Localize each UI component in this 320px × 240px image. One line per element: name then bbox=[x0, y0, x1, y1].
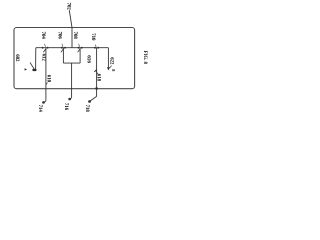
wire right drop bbox=[107, 48, 109, 68]
svg-text:610: 610 bbox=[46, 75, 51, 83]
leader to node C bbox=[95, 45, 96, 47]
wire fork right leg bbox=[79, 48, 81, 63]
wire pin C vertical bbox=[96, 48, 98, 97]
transistor Q5 arrow bbox=[94, 70, 96, 72]
pin 702 lead wire bbox=[69, 10, 72, 48]
pin C diagonal bbox=[90, 96, 97, 101]
leader 622 bbox=[109, 66, 111, 69]
bus wire bbox=[36, 47, 109, 49]
svg-text:702: 702 bbox=[66, 3, 71, 11]
node A dots bbox=[42, 47, 44, 49]
svg-text:706: 706 bbox=[56, 32, 61, 40]
svg-text:710: 710 bbox=[90, 33, 95, 41]
node C dots bbox=[94, 47, 96, 49]
wire fork bar bbox=[63, 62, 80, 64]
node arrow marker bbox=[25, 68, 28, 70]
wire left drop bbox=[35, 48, 37, 71]
svg-text:8: 8 bbox=[111, 69, 116, 71]
svg-text:718: 718 bbox=[84, 105, 89, 113]
transistor Q3 arrow bbox=[61, 49, 63, 52]
svg-text:716: 716 bbox=[63, 103, 68, 111]
svg-text:622: 622 bbox=[109, 57, 114, 65]
pin B hook bbox=[69, 98, 71, 100]
svg-text:714: 714 bbox=[37, 105, 42, 113]
svg-text:618: 618 bbox=[96, 74, 101, 82]
node B1 dots bbox=[61, 47, 63, 49]
leader to node A bbox=[45, 44, 46, 47]
leader to node B1 bbox=[62, 44, 63, 47]
svg-text:602: 602 bbox=[14, 54, 19, 62]
node B2 dots bbox=[78, 47, 80, 49]
svg-text:616: 616 bbox=[86, 55, 92, 63]
transistor Q4 arrow bbox=[78, 49, 80, 52]
wire pin A vertical bbox=[45, 48, 47, 101]
wire fork left leg bbox=[62, 48, 64, 63]
pin A hook bbox=[43, 101, 46, 103]
svg-text:612: 612 bbox=[41, 54, 46, 62]
svg-text:FIG. 8: FIG. 8 bbox=[142, 51, 147, 65]
transistor Q2 arrow bbox=[43, 49, 45, 52]
arrowhead right drop bbox=[107, 67, 110, 70]
node dot at border crossing bbox=[95, 87, 98, 89]
leader 610 bbox=[46, 83, 47, 85]
svg-text:708: 708 bbox=[72, 32, 77, 40]
transistor Q1 arrow bbox=[30, 63, 35, 70]
leader 618 bbox=[96, 71, 98, 74]
wire pin B vertical bbox=[71, 63, 73, 98]
chip outline 602 bbox=[14, 28, 135, 89]
leader to node B2 bbox=[79, 44, 80, 47]
svg-text:704: 704 bbox=[40, 32, 45, 40]
